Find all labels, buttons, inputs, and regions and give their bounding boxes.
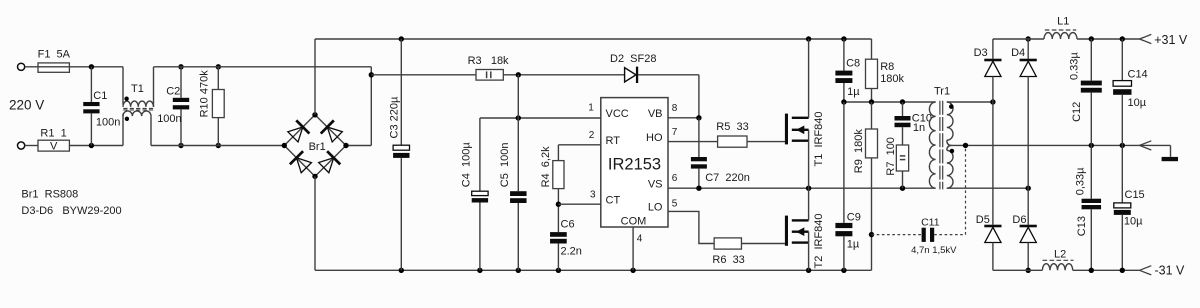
- svg-text:C5 100n: C5 100n: [499, 143, 511, 188]
- svg-text:L2: L2: [1054, 248, 1066, 260]
- svg-text:1: 1: [588, 103, 594, 114]
- svg-text:C6: C6: [561, 219, 575, 231]
- svg-text:COM: COM: [621, 216, 647, 228]
- svg-text:Br1 RS808: Br1 RS808: [21, 189, 78, 201]
- svg-text:6: 6: [672, 173, 678, 184]
- svg-text:VCC: VCC: [606, 108, 629, 120]
- svg-text:D4: D4: [1011, 47, 1025, 59]
- svg-text:1µ: 1µ: [847, 239, 860, 251]
- svg-text:C7 220n: C7 220n: [705, 172, 750, 184]
- svg-text:D3: D3: [974, 47, 988, 59]
- svg-text:R4 6,2k: R4 6,2k: [540, 146, 552, 187]
- svg-text:V: V: [50, 141, 58, 153]
- svg-text:2: 2: [589, 130, 595, 141]
- svg-text:L1: L1: [1057, 16, 1069, 28]
- svg-text:R5 33: R5 33: [716, 121, 748, 133]
- svg-text:1µ: 1µ: [847, 86, 860, 98]
- svg-text:D2 SF28: D2 SF28: [610, 53, 656, 65]
- svg-text:C4 100µ: C4 100µ: [460, 142, 472, 188]
- svg-text:180k: 180k: [880, 73, 904, 85]
- svg-text:RT: RT: [606, 135, 621, 147]
- svg-text:Tr1: Tr1: [934, 85, 950, 97]
- svg-text:C12: C12: [1071, 102, 1083, 122]
- svg-text:VB: VB: [648, 108, 663, 120]
- svg-text:F1 5A: F1 5A: [38, 49, 71, 61]
- svg-text:D6: D6: [1012, 214, 1026, 226]
- svg-text:220 V: 220 V: [9, 98, 44, 113]
- svg-text:C13: C13: [1076, 216, 1088, 236]
- svg-text:T1: T1: [131, 83, 144, 95]
- svg-text:T1 IRF840: T1 IRF840: [813, 111, 825, 166]
- svg-text:T2 IRF840: T2 IRF840: [813, 213, 825, 268]
- svg-text:R6 33: R6 33: [712, 254, 744, 266]
- svg-text:R8: R8: [880, 61, 894, 73]
- svg-text:R3 18k: R3 18k: [468, 55, 509, 67]
- svg-text:C11: C11: [921, 216, 940, 228]
- svg-text:C14: C14: [1128, 68, 1148, 80]
- svg-text:4,7n 1,5kV: 4,7n 1,5kV: [911, 245, 957, 256]
- svg-text:0,33µ: 0,33µ: [1075, 167, 1087, 195]
- svg-text:5: 5: [672, 199, 678, 210]
- svg-text:2.2n: 2.2n: [561, 246, 582, 258]
- svg-text:10µ: 10µ: [1124, 215, 1143, 227]
- svg-text:C2: C2: [166, 85, 180, 97]
- svg-text:7: 7: [672, 127, 678, 138]
- svg-text:C8: C8: [846, 58, 860, 70]
- svg-text:100n: 100n: [96, 117, 120, 129]
- svg-text:R9 180k: R9 180k: [853, 129, 865, 174]
- svg-text:D5: D5: [976, 214, 990, 226]
- svg-text:HO: HO: [646, 132, 663, 144]
- svg-text:4: 4: [637, 234, 643, 245]
- svg-text:0.33µ: 0.33µ: [1069, 52, 1081, 80]
- svg-text:3: 3: [590, 190, 596, 201]
- svg-text:C1: C1: [93, 90, 107, 102]
- svg-text:R1 1: R1 1: [40, 127, 66, 139]
- svg-text:LO: LO: [648, 202, 663, 214]
- svg-text:R7 100: R7 100: [885, 137, 897, 176]
- svg-text:C9: C9: [847, 212, 861, 224]
- svg-text:CT: CT: [606, 194, 621, 206]
- svg-text:IR2153: IR2153: [608, 156, 661, 174]
- svg-text:1n: 1n: [913, 122, 925, 134]
- svg-text:10µ: 10µ: [1128, 97, 1147, 109]
- svg-text:8: 8: [672, 103, 678, 114]
- svg-text:C15: C15: [1125, 189, 1145, 201]
- svg-text:R10 470k: R10 470k: [198, 70, 210, 118]
- svg-text:VS: VS: [648, 178, 663, 190]
- svg-text:-31 V: -31 V: [1155, 263, 1186, 277]
- svg-text:C3 220µ: C3 220µ: [388, 96, 400, 138]
- svg-text:D3-D6 BYW29-200: D3-D6 BYW29-200: [21, 205, 121, 217]
- svg-text:100n: 100n: [157, 113, 181, 125]
- svg-text:Br1: Br1: [309, 141, 326, 153]
- svg-text:+31 V: +31 V: [1154, 33, 1188, 47]
